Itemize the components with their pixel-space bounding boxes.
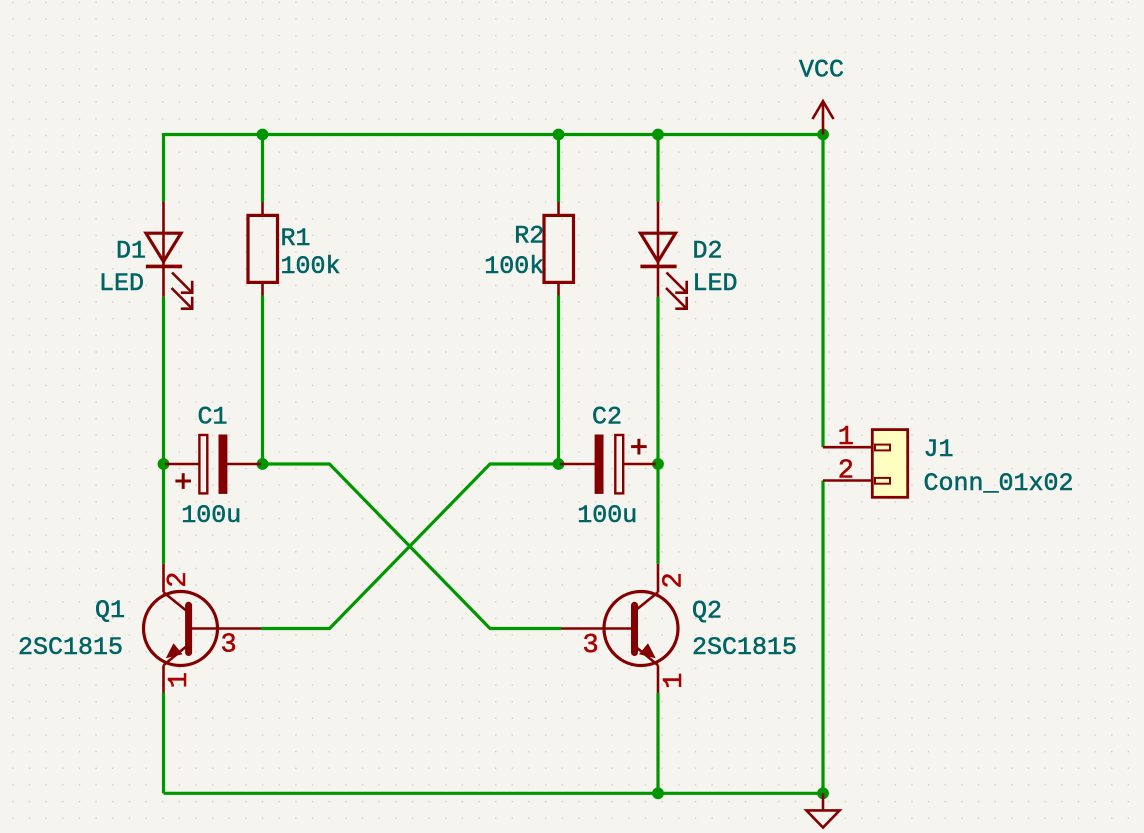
svg-text:1: 1 (165, 672, 195, 688)
junction bottom Q2 (652, 787, 664, 799)
junction top VCC (817, 129, 829, 141)
wire D1 anode drop (162, 133, 165, 202)
wire bottom ground rail (164, 792, 824, 795)
svg-text:R2: R2 (514, 222, 544, 251)
wire C1 node to Q1 collector (162, 464, 165, 564)
svg-text:LED: LED (693, 269, 738, 298)
junction top R1 (257, 129, 269, 141)
wire J1 pin2 to ground (821, 481, 824, 794)
svg-text:Conn_01x02: Conn_01x02 (924, 469, 1074, 498)
svg-text:2: 2 (659, 572, 689, 588)
wire Q1 emitter to bottom rail (162, 693, 165, 793)
svg-text:Q1: Q1 (95, 596, 125, 625)
svg-text:C1: C1 (198, 402, 228, 431)
svg-text:3: 3 (583, 631, 599, 661)
wire R1 top (261, 135, 264, 203)
LED D1 (146, 202, 192, 309)
wire R2 bottom to C2 node (557, 296, 560, 465)
svg-text:100u: 100u (181, 501, 241, 530)
junction C2 left (553, 458, 565, 470)
wire R2 top (557, 135, 560, 203)
wire VCC to J1 pin1 (821, 135, 824, 448)
wire C1 node to cross diagonal (263, 464, 562, 629)
power symbol VCC (813, 101, 834, 134)
svg-text:100k: 100k (281, 252, 341, 281)
junction C2 right (652, 458, 664, 470)
junction C1 right (257, 458, 269, 470)
junction top R2 (553, 129, 565, 141)
svg-text:C2: C2 (592, 402, 622, 431)
wire Q2 emitter to bottom rail (656, 693, 659, 793)
resistor R1 (248, 202, 278, 296)
svg-text:1: 1 (838, 423, 854, 453)
wire D2 cathode to C2 node (656, 297, 659, 464)
resistor R2 (544, 202, 574, 296)
junction C1 left (158, 458, 170, 470)
capacitor C1 (165, 435, 261, 493)
svg-text:J1: J1 (924, 435, 954, 464)
svg-text:R1: R1 (281, 224, 311, 253)
svg-text:D2: D2 (693, 237, 723, 266)
svg-text:LED: LED (99, 269, 144, 298)
transistor Q2 (561, 564, 678, 693)
connector J1 (823, 430, 908, 498)
transistor Q1 (144, 564, 262, 693)
svg-text:2: 2 (164, 572, 194, 588)
ground symbol (806, 793, 839, 827)
LED D2 (640, 202, 686, 309)
svg-text:2SC1815: 2SC1815 (692, 633, 797, 662)
svg-text:3: 3 (221, 631, 237, 661)
wire Q1 base to cross diagonal (261, 464, 559, 629)
svg-text:100k: 100k (484, 252, 544, 281)
wire D1 cathode to C1 node (162, 297, 165, 464)
junction bottom GND (817, 787, 829, 799)
svg-text:Q2: Q2 (692, 596, 722, 625)
wire VCC top rail (164, 133, 824, 136)
svg-text:D1: D1 (116, 237, 146, 266)
wire R1 bottom to C1 node (261, 296, 264, 465)
svg-text:100u: 100u (577, 501, 637, 530)
capacitor C2 (560, 435, 656, 493)
svg-text:1: 1 (660, 673, 690, 689)
svg-text:2SC1815: 2SC1815 (18, 633, 123, 662)
svg-text:VCC: VCC (799, 56, 844, 85)
junction top D2 (652, 129, 664, 141)
svg-text:2: 2 (838, 457, 854, 487)
wire C2 node to Q2 collector (656, 464, 659, 564)
wire D2 anode drop (656, 133, 659, 202)
